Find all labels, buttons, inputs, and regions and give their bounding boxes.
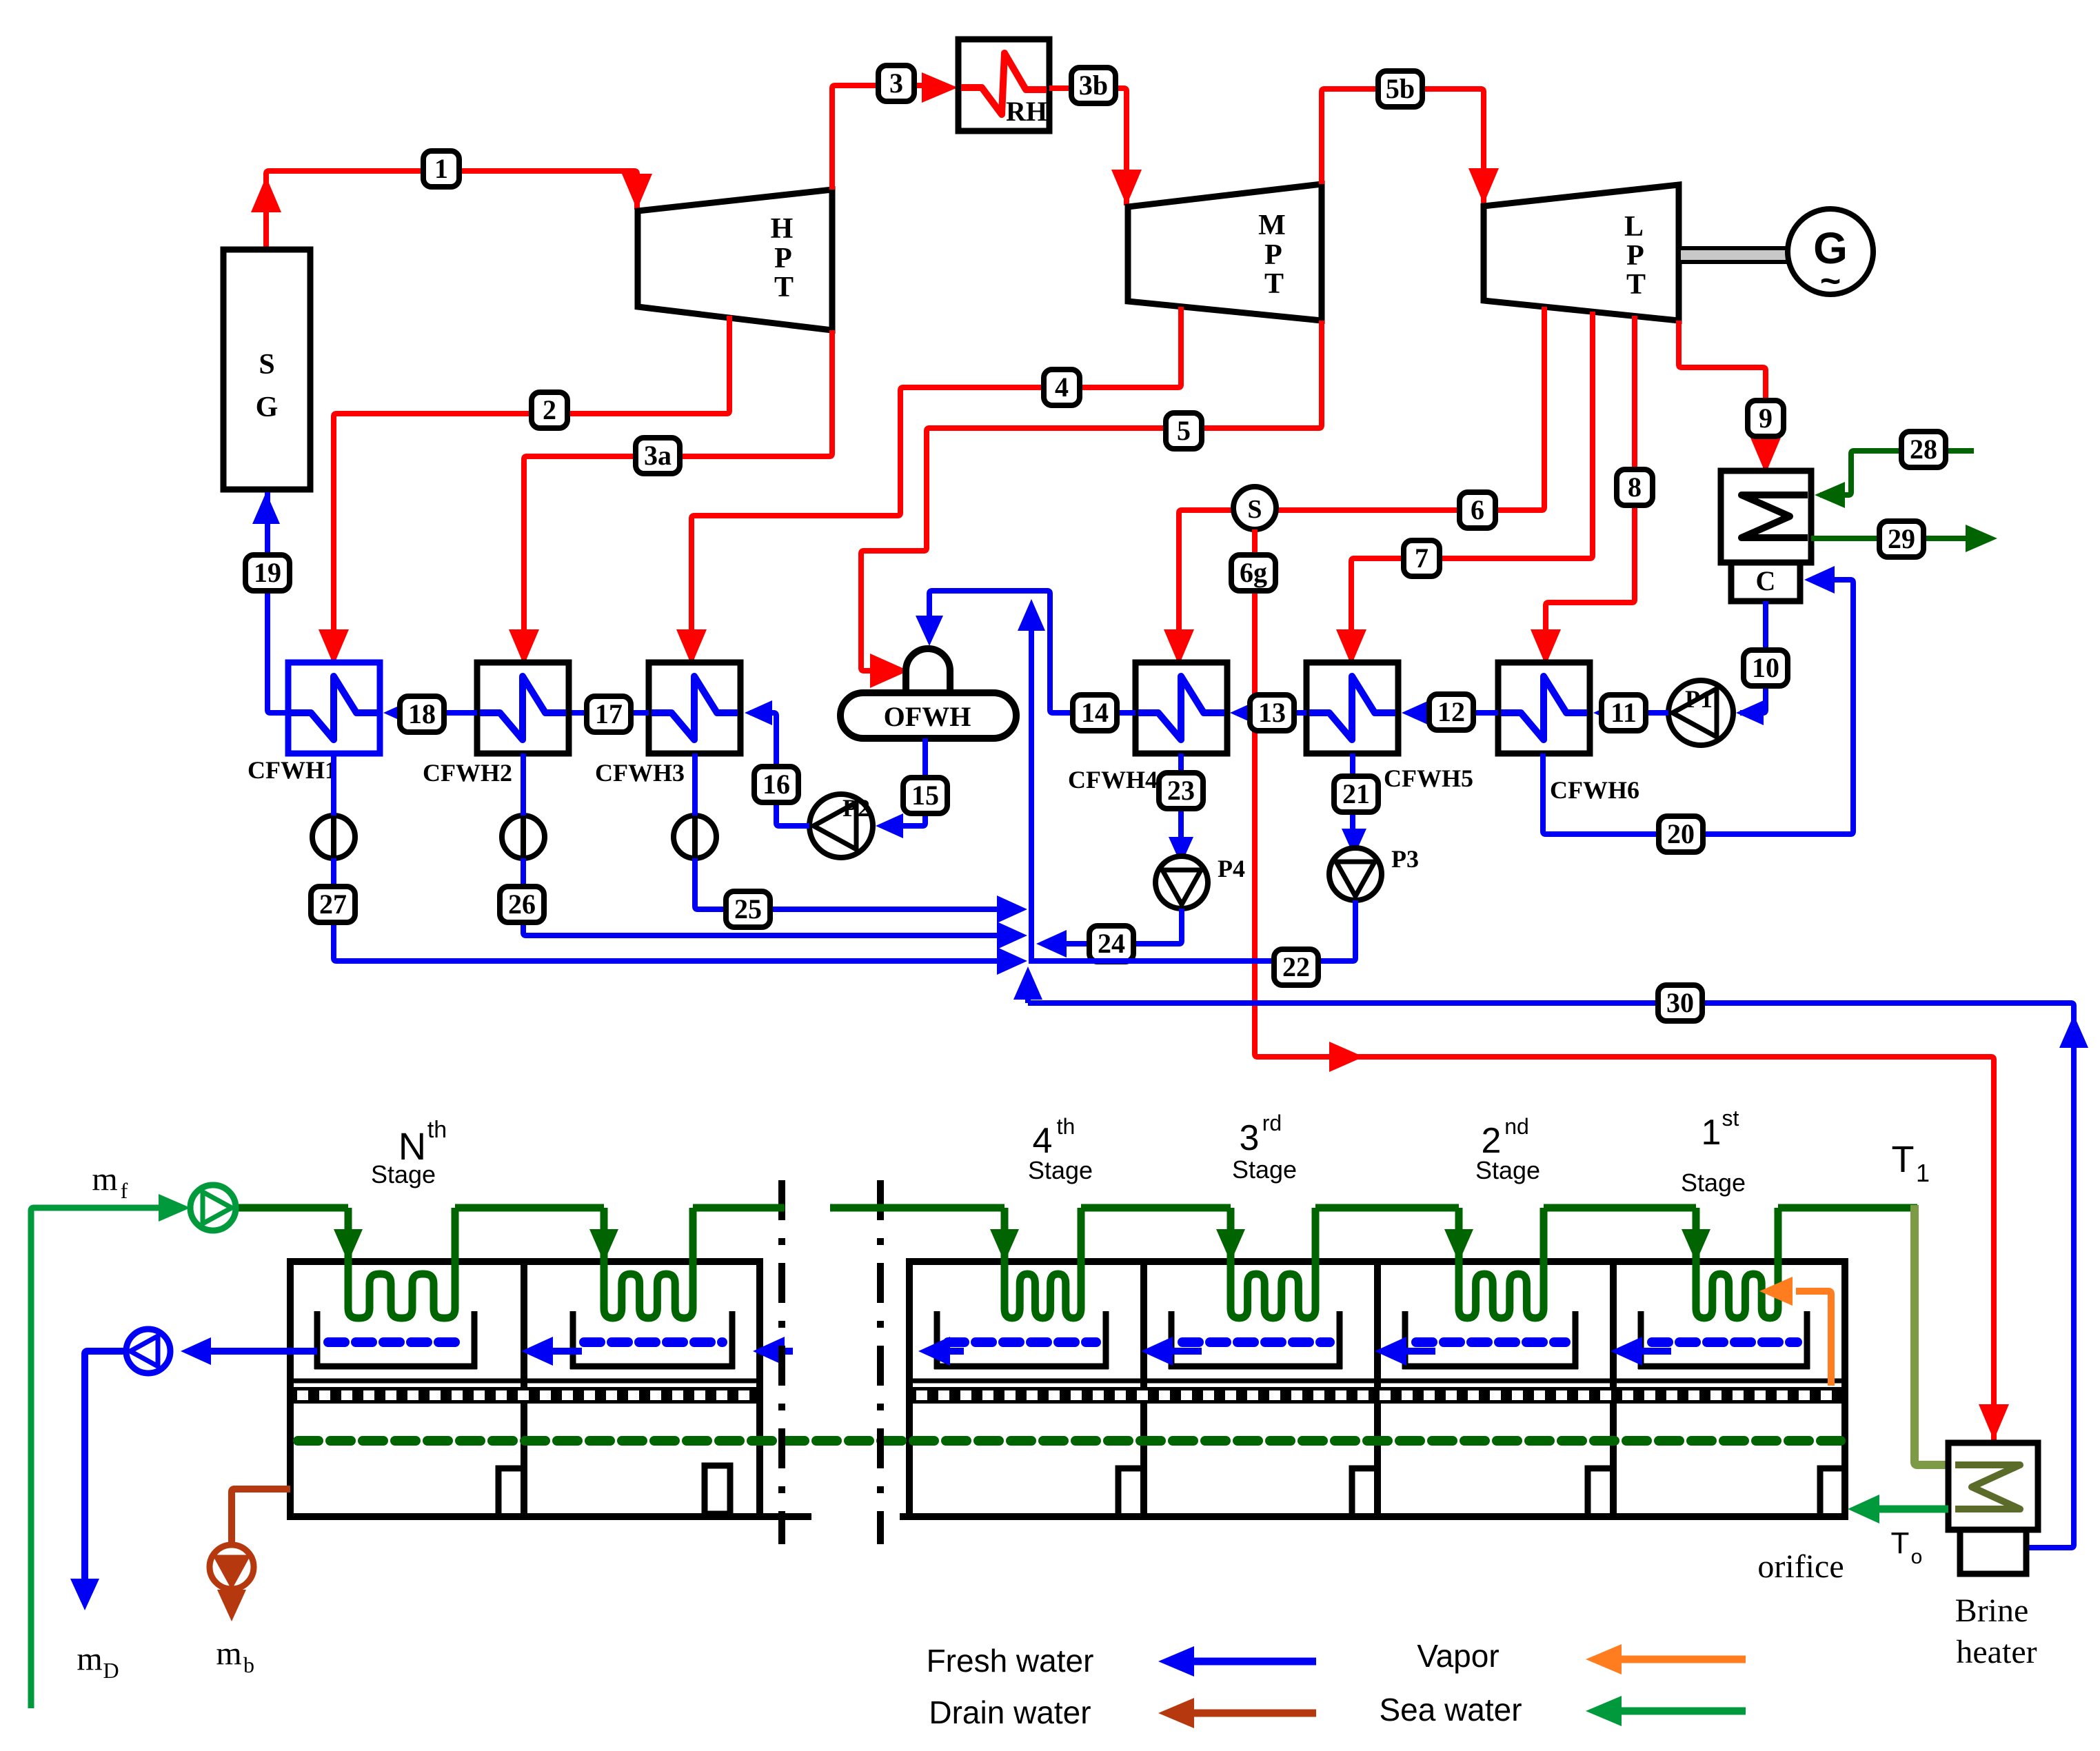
label 18 [400, 696, 444, 732]
svg-text:19: 19 [254, 557, 281, 588]
MSF left vessel block (Nth stages) [290, 1262, 811, 1517]
orifice weirs at stage bottoms [498, 1466, 1841, 1514]
label 1 [423, 151, 459, 187]
svg-text:28: 28 [1910, 434, 1937, 465]
svg-text:3: 3 [889, 68, 903, 99]
brine line T1 to brine heater [1915, 1205, 1955, 1465]
wire stream 8 LPT extraction to CFWH6 [1531, 316, 1635, 665]
sea water tube coils in stages [348, 1208, 1778, 1318]
svg-text:Vapor: Vapor [1417, 1638, 1499, 1674]
svg-text:Sea water: Sea water [1379, 1692, 1522, 1728]
legend Drain water [929, 1694, 1316, 1730]
svg-text:27: 27 [319, 889, 347, 920]
label 16 [754, 767, 798, 802]
label To [1891, 1526, 1923, 1568]
svg-text:3: 3 [1240, 1118, 1260, 1158]
wire stream 17 CFWH3 to CFWH2 [572, 710, 649, 716]
wire stream 2 HPT extraction to CFWH1 [319, 316, 729, 665]
svg-text:14: 14 [1081, 697, 1109, 728]
label orifice [1757, 1548, 1844, 1585]
wire stream 18 CFWH2 to CFWH1 [383, 700, 477, 725]
svg-text:C: C [1756, 565, 1776, 596]
svg-text:CFWH5: CFWH5 [1384, 765, 1473, 792]
svg-text:P3: P3 [1391, 845, 1419, 873]
svg-text:m: m [92, 1161, 117, 1197]
svg-text:18: 18 [408, 698, 436, 729]
label 3a [636, 438, 680, 474]
label 17 [587, 696, 631, 732]
drain junction riser to OFWH [1018, 599, 1045, 964]
label mf [92, 1161, 128, 1203]
wire stream 6g steam to brine heater [1255, 529, 2009, 1440]
svg-text:m: m [216, 1635, 241, 1672]
svg-text:CFWH6: CFWH6 [1550, 776, 1639, 804]
label CFWH2 name [423, 759, 512, 787]
svg-text:CFWH4: CFWH4 [1068, 766, 1158, 793]
brine level dashed line [298, 1436, 1841, 1446]
svg-text:CFWH3: CFWH3 [595, 759, 685, 787]
svg-text:P: P [1264, 239, 1282, 271]
label 2 [532, 392, 567, 428]
svg-text:8: 8 [1628, 472, 1642, 503]
label Brine heater [1955, 1592, 2037, 1670]
label Nth stage [371, 1117, 447, 1188]
label 3rd stage [1232, 1111, 1297, 1184]
condenser [1721, 471, 1811, 563]
vapor line to 1st stage coil [1759, 1277, 1831, 1386]
wire stream 3b RH to MPT inlet [1049, 88, 1142, 205]
wire stream 7 LPT extraction to CFWH5 [1336, 312, 1593, 665]
svg-text:Drain water: Drain water [929, 1694, 1091, 1730]
pump P1 [1668, 680, 1733, 745]
feedwater heater CFWH4 [1135, 662, 1227, 753]
svg-text:26: 26 [508, 889, 536, 920]
wire stream 22 P3 to junction [1031, 900, 1355, 961]
pump P4 [1155, 855, 1245, 909]
svg-text:~: ~ [1820, 261, 1841, 301]
label 5 [1166, 413, 1202, 449]
condenser hotwell C [1731, 563, 1800, 601]
feedwater heater CFWH5 [1306, 662, 1398, 753]
feedwater heater CFWH6 [1498, 662, 1590, 753]
svg-text:10: 10 [1752, 652, 1779, 683]
svg-text:m: m [77, 1641, 102, 1677]
svg-text:o: o [1911, 1546, 1923, 1568]
wire stream 25 CFWH3 drain to junction [695, 753, 1027, 923]
svg-text:2: 2 [543, 394, 556, 425]
label 14 [1073, 695, 1117, 731]
feedwater heater CFWH3 [649, 662, 740, 753]
wire stream 11 P1 to CFWH6 [1593, 700, 1668, 725]
svg-text:4: 4 [1055, 372, 1069, 403]
label 27 [311, 887, 355, 922]
brine heater [1948, 1443, 2038, 1574]
label 28 [1901, 432, 1946, 467]
sea water header line [235, 1204, 1917, 1212]
label 3b [1071, 68, 1115, 103]
label 10 [1744, 650, 1788, 686]
svg-text:th: th [427, 1117, 447, 1143]
label 4 [1044, 370, 1080, 405]
svg-text:7: 7 [1415, 543, 1428, 574]
svg-text:heater: heater [1956, 1634, 2037, 1670]
wire stream 9 LPT exhaust to condenser [1679, 321, 1781, 474]
label 12 [1429, 694, 1473, 730]
label 19 [245, 555, 290, 591]
wire brine blowdown mb [217, 1489, 290, 1621]
svg-text:P: P [1626, 240, 1644, 272]
svg-text:1: 1 [1916, 1159, 1930, 1187]
svg-text:1: 1 [1702, 1113, 1722, 1153]
reheater RH [958, 39, 1049, 131]
drain valve V1 [312, 816, 355, 858]
wire stream 21 CFWH5 drain [1342, 753, 1366, 856]
svg-text:6g: 6g [1240, 557, 1267, 588]
distillate pump [126, 1329, 170, 1373]
svg-text:M: M [1258, 210, 1286, 241]
label 11 [1602, 695, 1646, 731]
label 1st stage [1681, 1106, 1746, 1197]
label 22 [1274, 949, 1318, 985]
label CFWH3 name [595, 759, 685, 787]
svg-text:f: f [121, 1178, 128, 1203]
svg-text:H: H [771, 213, 794, 245]
svg-text:st: st [1722, 1106, 1739, 1131]
legend Vapor [1417, 1638, 1746, 1674]
label 7 [1404, 540, 1440, 576]
wire stream 3 HPT to reheater [832, 72, 958, 190]
svg-text:nd: nd [1504, 1114, 1529, 1139]
svg-text:15: 15 [911, 780, 939, 811]
label 2nd stage [1475, 1114, 1540, 1184]
svg-text:T: T [774, 272, 794, 303]
wire stream 6 LPT extraction [1164, 307, 1544, 665]
label mD [77, 1641, 119, 1683]
svg-text:rd: rd [1262, 1111, 1282, 1135]
label 5b [1378, 71, 1422, 107]
svg-text:L: L [1624, 211, 1644, 243]
svg-text:25: 25 [734, 893, 762, 924]
turbine HPT [638, 190, 832, 330]
label CFWH1 name [248, 756, 337, 784]
label 26 [500, 887, 544, 922]
MSF right vessel block (stages 4..1) [900, 1262, 1845, 1517]
svg-text:17: 17 [595, 698, 623, 729]
svg-text:b: b [243, 1652, 254, 1677]
svg-text:P2: P2 [842, 794, 870, 822]
drain valve V2 [502, 816, 545, 858]
svg-text:S: S [1247, 495, 1262, 524]
svg-text:T: T [1891, 1526, 1910, 1560]
wire stream 5b MPT to LPT inlet [1322, 89, 1499, 204]
wire stream 30 return from brine heater [1013, 966, 2088, 1548]
distillate trays in stages [314, 1311, 1810, 1369]
wire distillate product mD [70, 1337, 317, 1610]
label 29 [1879, 521, 1924, 557]
pump P3 [1329, 845, 1419, 900]
label 24 [1089, 926, 1133, 962]
svg-text:22: 22 [1282, 951, 1310, 982]
svg-text:16: 16 [763, 769, 790, 800]
shaft LPT to generator [1679, 248, 1788, 262]
svg-text:24: 24 [1098, 928, 1125, 959]
svg-text:3b: 3b [1079, 70, 1108, 101]
svg-text:S: S [259, 349, 274, 381]
brine blowdown pump [210, 1545, 254, 1589]
svg-text:P: P [774, 243, 792, 274]
svg-text:T: T [1264, 268, 1284, 300]
wire stream 5 MPT exhaust to OFWH [861, 321, 1322, 688]
open feedwater heater OFWH [840, 649, 1016, 738]
svg-text:RH: RH [1006, 96, 1047, 127]
label CFWH4 name [1068, 766, 1158, 793]
label 15 [903, 778, 947, 813]
distillate level dashed lines [328, 1337, 1797, 1347]
steam generator SG [223, 250, 310, 489]
label 20 [1659, 816, 1703, 852]
svg-text:20: 20 [1667, 818, 1695, 849]
svg-text:OFWH: OFWH [884, 701, 971, 732]
label 4th stage [1028, 1114, 1093, 1184]
feedwater heater CFWH2 [477, 662, 569, 753]
svg-text:29: 29 [1888, 523, 1915, 554]
wire sea water feed mf [31, 1194, 190, 1708]
wire stream 29 cooling water outlet [1811, 525, 1997, 552]
legend Sea water [1379, 1692, 1746, 1728]
svg-text:Stage: Stage [1681, 1168, 1746, 1197]
label CFWH5 name [1384, 765, 1473, 792]
svg-text:Stage: Stage [1475, 1156, 1540, 1184]
svg-text:P1: P1 [1685, 685, 1713, 713]
wire stream 4 MPT extraction to CFWH3 [676, 307, 1181, 665]
svg-text:T: T [1892, 1139, 1915, 1180]
svg-text:3a: 3a [644, 440, 672, 471]
label T1 [1892, 1139, 1930, 1187]
svg-text:6: 6 [1471, 494, 1484, 525]
label 23 [1159, 773, 1203, 809]
svg-text:orifice: orifice [1757, 1548, 1844, 1585]
section break dash-dot lines [782, 1180, 880, 1544]
wire stream 24 P4 to junction [1036, 909, 1182, 958]
demister strips [290, 1381, 1845, 1404]
wire stream 23 CFWH4 drain [1169, 753, 1193, 864]
svg-text:4: 4 [1033, 1121, 1053, 1161]
wire stream 1 SG outlet to HPT inlet [251, 171, 652, 250]
svg-text:23: 23 [1167, 775, 1195, 806]
label 13 [1250, 695, 1294, 731]
svg-text:Brine: Brine [1955, 1592, 2029, 1629]
splitter node S [1233, 487, 1276, 529]
turbine MPT [1128, 184, 1322, 321]
sea water pump [190, 1185, 236, 1231]
label 8 [1617, 469, 1653, 505]
wire stream 15 OFWH to P2 [876, 738, 925, 838]
label 21 [1334, 776, 1378, 812]
label 9 [1748, 401, 1784, 436]
sea water feed arrows into stages [334, 1229, 1710, 1262]
turbine LPT [1484, 185, 1679, 321]
legend Fresh water [927, 1643, 1316, 1679]
label mb [216, 1635, 254, 1677]
svg-text:T: T [1626, 269, 1646, 301]
label 6g [1231, 555, 1275, 591]
svg-text:Stage: Stage [371, 1160, 436, 1188]
svg-text:P4: P4 [1218, 855, 1245, 882]
wire stream 12 CFWH6 to CFWH5 [1402, 700, 1498, 725]
generator G [1788, 209, 1873, 301]
wire To brine heater outlet to 1st stage [1848, 1495, 1948, 1524]
wire stream 19 CFWH1 to SG [252, 492, 288, 713]
svg-text:12: 12 [1437, 696, 1465, 727]
drain valve V3 [674, 816, 716, 858]
svg-text:Stage: Stage [1232, 1155, 1297, 1184]
label 30 [1658, 985, 1702, 1021]
wire stream 26 CFWH2 drain to junction [523, 753, 1027, 949]
svg-text:21: 21 [1342, 778, 1370, 809]
wire stream 13 CFWH5 to CFWH4 [1230, 700, 1306, 725]
svg-text:Fresh water: Fresh water [927, 1643, 1094, 1679]
label 25 [726, 891, 770, 927]
svg-text:30: 30 [1666, 987, 1694, 1018]
svg-text:th: th [1057, 1114, 1076, 1139]
wire stream 16 P2 to CFWH3 [745, 700, 809, 826]
svg-text:D: D [103, 1658, 119, 1683]
label 6 [1460, 492, 1495, 528]
svg-text:9: 9 [1759, 403, 1773, 434]
svg-text:G: G [256, 392, 279, 423]
svg-text:CFWH1: CFWH1 [248, 756, 337, 784]
svg-text:11: 11 [1611, 697, 1637, 728]
pump P2 [809, 794, 873, 858]
svg-text:Stage: Stage [1028, 1156, 1093, 1184]
svg-text:13: 13 [1258, 697, 1286, 728]
label 3 [878, 65, 914, 101]
distillate flow arrows between trays [521, 1337, 1671, 1366]
feedwater heater CFWH1 [288, 662, 380, 753]
wire stream 27 CFWH1 drain to junction [334, 753, 1027, 975]
label CFWH6 name [1550, 776, 1639, 804]
wire stream 14 CFWH4 to OFWH [916, 591, 1135, 713]
svg-text:CFWH2: CFWH2 [423, 759, 512, 787]
wire stream 3a HPT exhaust to CFWH2 [509, 330, 832, 665]
svg-text:2: 2 [1482, 1121, 1502, 1161]
wire stream 10 condensate to P1 [1736, 601, 1766, 725]
svg-text:5: 5 [1177, 415, 1191, 446]
wire stream 20 CFWH6 drain to hotwell [1543, 566, 1853, 834]
svg-text:1: 1 [434, 153, 448, 184]
svg-text:5b: 5b [1386, 73, 1415, 104]
wire stream 28 cooling water inlet [1815, 451, 1974, 508]
